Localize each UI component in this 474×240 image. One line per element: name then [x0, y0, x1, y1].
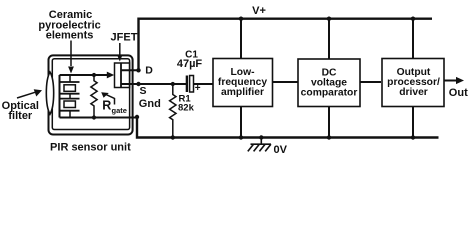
junction dot [239, 135, 243, 139]
svg-text:comparator: comparator [301, 88, 358, 99]
resistor R1 [170, 84, 176, 138]
junction dot [411, 135, 415, 139]
svg-text:Gnd: Gnd [139, 98, 161, 110]
wire U1 to 0V [240, 107, 242, 138]
junction dot [411, 17, 415, 21]
transistor JFET box [115, 63, 130, 88]
pyroelectric element 2 [60, 99, 79, 118]
node D pin dot [136, 68, 140, 72]
ground symbol [248, 138, 271, 152]
junction dot ground [259, 135, 263, 139]
wire S to C1 [139, 83, 187, 85]
junction dot [327, 17, 331, 21]
optical filter lens [46, 72, 53, 114]
wire U3 to 0V [412, 107, 414, 138]
wire gate top (internal) [60, 74, 108, 76]
svg-text:47µF: 47µF [177, 58, 203, 70]
capacitor C1 plate left [186, 76, 188, 93]
capacitor C1 plate right (box) [190, 76, 194, 93]
label arrow ceramic elements [70, 41, 72, 67]
svg-text:JFET: JFET [111, 32, 138, 44]
wire V+ top rail [139, 19, 433, 71]
wire U2 to 0V [328, 107, 330, 138]
pyroelectric element 1 [60, 75, 79, 99]
label Rgate arrow [105, 94, 115, 105]
wire 0V bottom rail [137, 117, 439, 138]
svg-text:R: R [102, 99, 111, 113]
junction dot R1 bottom [171, 135, 175, 139]
junction dot Rgate top [92, 73, 96, 77]
node S pin dot [136, 82, 140, 86]
junction dot [327, 135, 331, 139]
svg-text:driver: driver [399, 87, 428, 98]
svg-text:filter: filter [8, 110, 33, 122]
svg-text:82k: 82k [178, 102, 195, 113]
label arrow JFET [119, 43, 121, 55]
transistor JFET channel [120, 63, 122, 88]
wire source lead [121, 83, 139, 85]
svg-text:PIR sensor unit: PIR sensor unit [50, 142, 131, 154]
svg-text:0V: 0V [274, 144, 288, 156]
PIR sensor unit inner case [52, 59, 129, 130]
svg-text:gate: gate [112, 106, 127, 115]
junction dot Rgate bottom [92, 115, 96, 119]
wire U2 to U3 [360, 81, 381, 83]
svg-text:Out: Out [449, 87, 468, 99]
node Gnd pin dot [135, 115, 139, 119]
wire drain lead [121, 69, 139, 71]
svg-text:amplifier: amplifier [221, 87, 264, 98]
wire left bus (internal) [59, 75, 61, 118]
wire V+ drop to U2 [328, 19, 330, 59]
block U3 output processor/driver [382, 59, 444, 107]
wire C1 to amplifier [193, 83, 213, 85]
block U1 low-frequency amplifier [213, 59, 273, 107]
junction dot [239, 17, 243, 21]
junction dot R1 top [171, 82, 175, 86]
PIR sensor unit outer case [49, 55, 133, 134]
wire U1 to U2 [273, 81, 298, 83]
block U2 DC voltage comparator [298, 59, 360, 107]
wire bottom internal to Gnd pin [60, 117, 138, 119]
resistor Rgate zigzag [91, 75, 97, 118]
svg-text:D: D [145, 65, 153, 77]
svg-text:elements: elements [46, 30, 94, 42]
wire V+ drop to U3 [412, 19, 414, 59]
transistor JFET gate arrowhead [107, 74, 109, 76]
wire V+ drop to U1 [240, 19, 242, 59]
svg-text:S: S [140, 85, 147, 97]
wire output arrow [444, 80, 459, 82]
label arrow optical filter [17, 92, 35, 98]
svg-text:V+: V+ [252, 5, 266, 17]
